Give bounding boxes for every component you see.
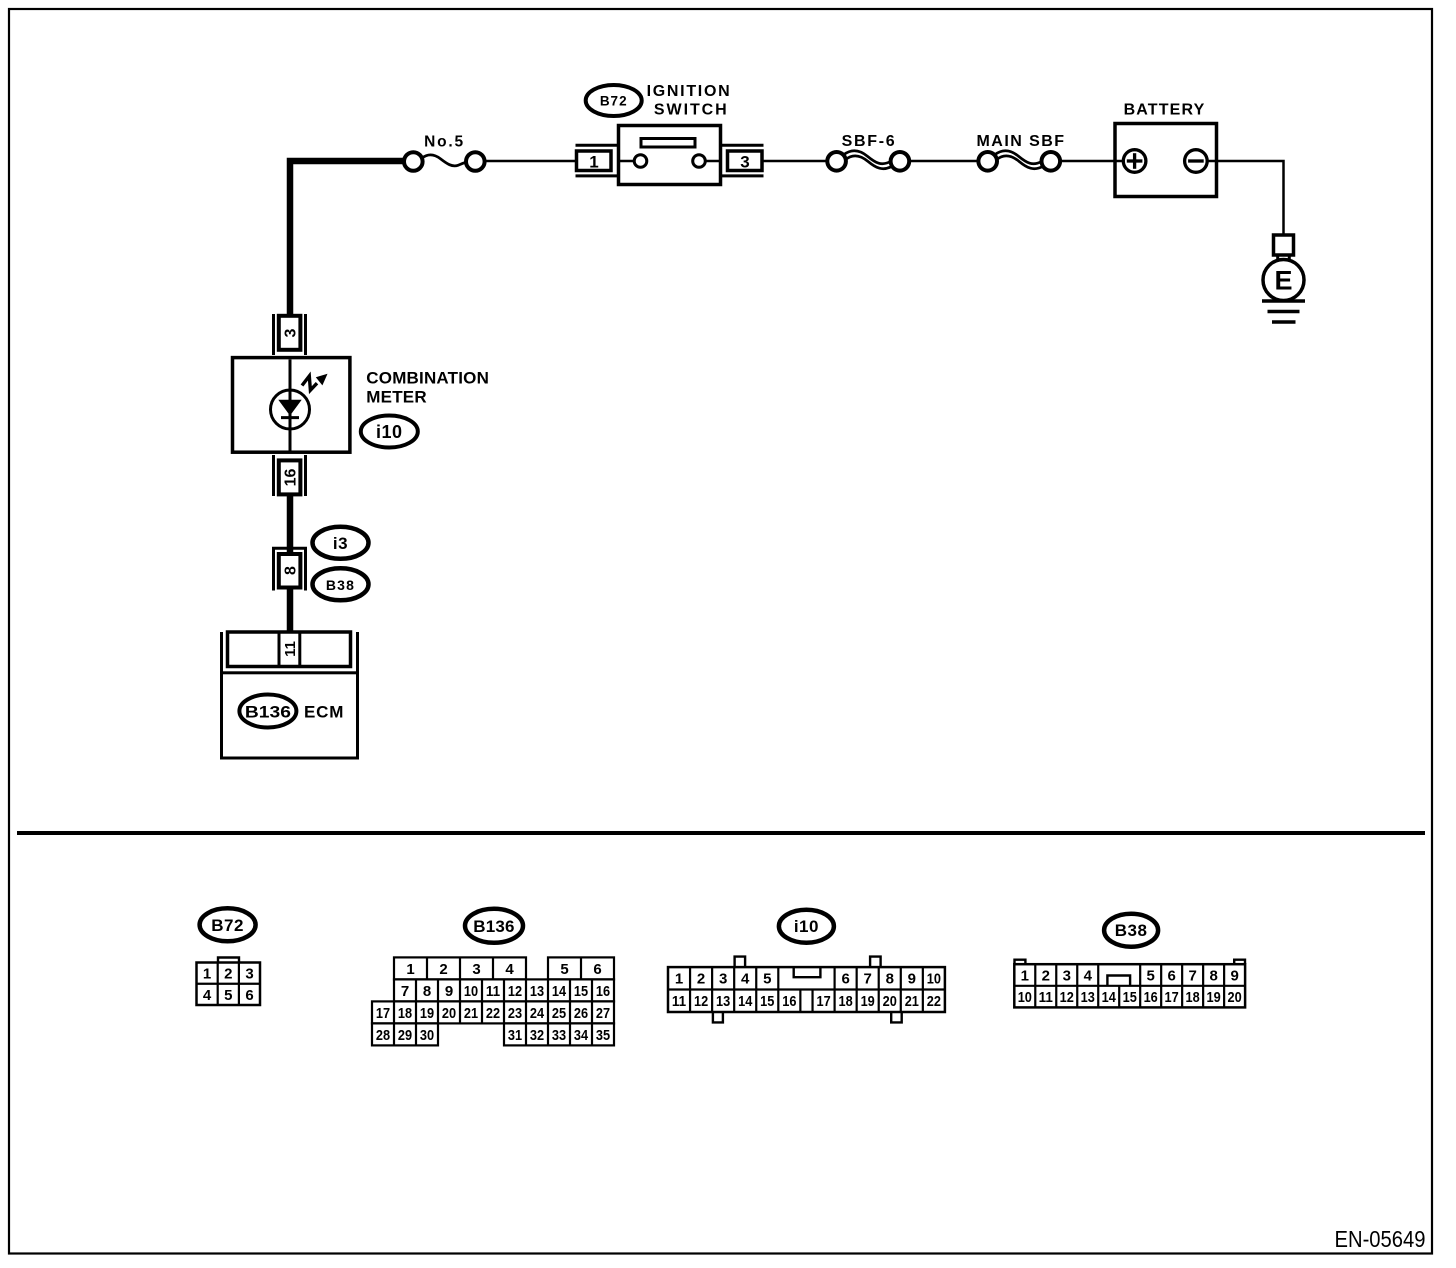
svg-text:12: 12	[1060, 989, 1074, 1006]
svg-text:13: 13	[716, 993, 730, 1010]
svg-text:7: 7	[1188, 967, 1196, 984]
svg-text:22: 22	[486, 1005, 500, 1022]
wire: joint connector to ECM pin 11	[287, 588, 294, 634]
svg-text:31: 31	[508, 1027, 522, 1044]
svg-text:32: 32	[530, 1027, 544, 1044]
svg-text:15: 15	[760, 993, 774, 1010]
svg-text:5: 5	[560, 961, 568, 978]
terminal 1 (ignition switch B72 pin 1)	[576, 145, 618, 176]
terminal 3 (ignition switch B72 pin 3)	[722, 145, 764, 176]
svg-text:14: 14	[1102, 989, 1117, 1006]
svg-text:4: 4	[741, 971, 750, 988]
svg-text:B72: B72	[211, 916, 244, 935]
svg-text:1: 1	[203, 966, 211, 983]
svg-text:B136: B136	[473, 917, 514, 936]
terminal 16 (combination meter i10 pin 16)	[274, 455, 306, 496]
svg-text:10: 10	[1018, 989, 1032, 1006]
svg-text:3: 3	[472, 961, 480, 978]
ECM connector row with terminal 11 (B136 pin 11)	[222, 632, 358, 674]
connector ellipse i3	[313, 527, 369, 559]
svg-text:i3: i3	[333, 534, 348, 553]
svg-text:EN-05649: EN-05649	[1335, 1226, 1426, 1252]
ECM B136 body	[222, 673, 358, 758]
svg-text:BATTERY: BATTERY	[1124, 102, 1206, 119]
svg-text:29: 29	[398, 1027, 412, 1044]
svg-text:11: 11	[1039, 989, 1053, 1006]
svg-text:SBF-6: SBF-6	[842, 133, 897, 150]
wire: fuse No.5 to ignition switch pin 1	[484, 160, 578, 163]
svg-text:3: 3	[282, 328, 299, 337]
svg-text:9: 9	[445, 983, 453, 1000]
svg-text:25: 25	[552, 1005, 566, 1022]
svg-text:21: 21	[464, 1005, 478, 1022]
wire: MAIN SBF to battery positive terminal	[1061, 160, 1125, 163]
fusible link SBF-6	[827, 133, 909, 171]
svg-text:7: 7	[864, 971, 872, 988]
svg-text:15: 15	[1123, 989, 1137, 1006]
svg-text:22: 22	[927, 993, 941, 1010]
svg-text:8: 8	[886, 971, 894, 988]
svg-text:9: 9	[1230, 967, 1238, 984]
svg-text:33: 33	[552, 1027, 566, 1044]
svg-text:3: 3	[740, 153, 749, 172]
fusible link MAIN SBF	[977, 133, 1066, 171]
svg-text:20: 20	[883, 993, 897, 1010]
ignition switch body	[618, 126, 721, 185]
svg-text:8: 8	[1209, 967, 1217, 984]
svg-text:2: 2	[439, 961, 447, 978]
svg-text:17: 17	[816, 993, 830, 1010]
combination meter i10 box	[233, 358, 350, 453]
svg-text:MAIN SBF: MAIN SBF	[977, 133, 1066, 150]
svg-text:2: 2	[1042, 967, 1050, 984]
wire: battery feed from fuse No.5 down to combination meter terminal 3	[290, 161, 405, 317]
svg-text:17: 17	[376, 1005, 390, 1022]
svg-text:11: 11	[672, 993, 686, 1010]
svg-text:18: 18	[1186, 989, 1200, 1006]
svg-text:5: 5	[224, 987, 232, 1004]
svg-text:2: 2	[697, 971, 705, 988]
svg-text:18: 18	[398, 1005, 412, 1022]
svg-text:16: 16	[282, 469, 299, 487]
svg-text:12: 12	[508, 983, 522, 1000]
svg-text:11: 11	[486, 983, 500, 1000]
svg-text:11: 11	[282, 641, 299, 657]
svg-text:19: 19	[420, 1005, 434, 1022]
svg-text:14: 14	[738, 993, 753, 1010]
wire: SBF-6 to MAIN SBF	[910, 160, 979, 163]
svg-text:E: E	[1274, 266, 1292, 296]
svg-text:35: 35	[596, 1027, 610, 1044]
svg-text:10: 10	[927, 971, 941, 988]
wire: combination meter pin 16 to joint connector i3/B38	[287, 495, 294, 556]
svg-text:SWITCH: SWITCH	[654, 102, 729, 119]
svg-text:4: 4	[1084, 967, 1093, 984]
svg-text:3: 3	[1063, 967, 1071, 984]
svg-text:METER: METER	[366, 388, 427, 407]
connector ellipse B38	[313, 568, 369, 600]
svg-text:4: 4	[203, 987, 212, 1004]
svg-text:COMBINATION: COMBINATION	[366, 369, 489, 388]
svg-text:7: 7	[401, 983, 409, 1000]
svg-text:B72: B72	[600, 94, 628, 109]
svg-text:16: 16	[782, 993, 796, 1010]
svg-text:12: 12	[694, 993, 708, 1010]
connector pinout i10 (combination meter, 22 pins)	[668, 910, 945, 1023]
svg-text:6: 6	[593, 961, 601, 978]
svg-text:1: 1	[675, 971, 683, 988]
wire: ignition switch pin 3 to fusible link SBF-6	[762, 160, 827, 163]
svg-text:3: 3	[719, 971, 727, 988]
combination meter connector ellipse i10	[361, 416, 418, 448]
fuse No.5	[404, 134, 485, 171]
ground terminal E with ground symbol	[1262, 235, 1305, 322]
svg-text:5: 5	[763, 971, 771, 988]
svg-text:27: 27	[596, 1005, 610, 1022]
wire: battery negative terminal to ground E	[1207, 161, 1284, 235]
svg-text:15: 15	[574, 983, 588, 1000]
svg-text:4: 4	[505, 961, 514, 978]
svg-text:8: 8	[282, 566, 299, 575]
svg-text:18: 18	[839, 993, 853, 1010]
svg-text:17: 17	[1165, 989, 1179, 1006]
terminal 3 (combination meter i10 pin 3)	[274, 314, 306, 355]
svg-text:20: 20	[1228, 989, 1242, 1006]
svg-text:2: 2	[224, 966, 232, 983]
ignition switch B72 connector ellipse	[586, 85, 642, 116]
svg-text:19: 19	[861, 993, 875, 1010]
svg-text:1: 1	[1021, 967, 1029, 984]
svg-text:IGNITION: IGNITION	[647, 83, 732, 100]
svg-text:8: 8	[423, 983, 431, 1000]
svg-text:24: 24	[530, 1005, 545, 1022]
svg-text:20: 20	[442, 1005, 456, 1022]
svg-text:No.5: No.5	[424, 134, 465, 151]
joint connector i3 / B38 terminal 8	[274, 548, 306, 590]
svg-text:10: 10	[464, 983, 478, 1000]
connector pinout B72 (ignition switch, 6 pins)	[197, 908, 261, 1005]
svg-text:3: 3	[245, 966, 253, 983]
svg-text:14: 14	[552, 983, 567, 1000]
svg-text:i10: i10	[794, 917, 819, 936]
svg-text:1: 1	[589, 153, 598, 172]
svg-text:23: 23	[508, 1005, 522, 1022]
svg-text:19: 19	[1207, 989, 1221, 1006]
svg-text:6: 6	[245, 987, 253, 1004]
LED (illumination lamp) inside combination meter	[271, 374, 328, 429]
svg-text:26: 26	[574, 1005, 588, 1022]
svg-text:13: 13	[1081, 989, 1095, 1006]
svg-text:9: 9	[908, 971, 916, 988]
svg-text:B38: B38	[326, 577, 355, 593]
svg-text:34: 34	[574, 1027, 589, 1044]
battery	[1115, 102, 1217, 197]
svg-text:B38: B38	[1115, 921, 1148, 940]
svg-text:21: 21	[905, 993, 919, 1010]
svg-text:6: 6	[1167, 967, 1175, 984]
svg-text:28: 28	[376, 1027, 390, 1044]
svg-text:30: 30	[420, 1027, 434, 1044]
svg-text:16: 16	[596, 983, 610, 1000]
connector pinout B136 (ECM, 35 pins)	[372, 909, 614, 1046]
svg-text:B136: B136	[245, 702, 291, 721]
svg-text:13: 13	[530, 983, 544, 1000]
svg-text:ECM: ECM	[304, 703, 344, 722]
svg-text:i10: i10	[376, 422, 403, 442]
svg-text:6: 6	[841, 971, 849, 988]
connector pinout B38 (20 pins)	[1014, 914, 1245, 1008]
svg-text:5: 5	[1147, 967, 1155, 984]
svg-text:1: 1	[406, 961, 414, 978]
svg-text:16: 16	[1144, 989, 1158, 1006]
